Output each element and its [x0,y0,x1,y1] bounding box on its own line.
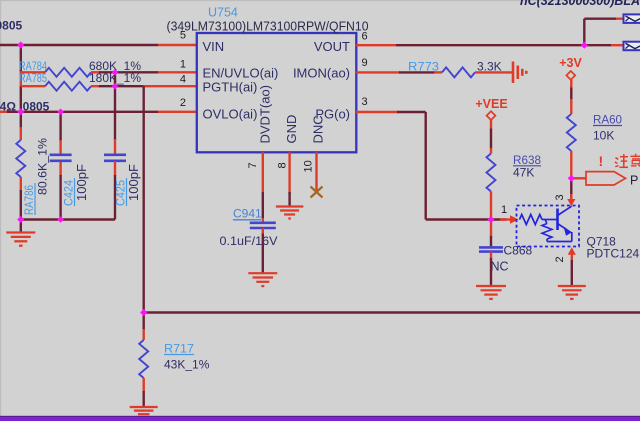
value label 0805 (clipped component label) [0,19,23,33]
pin name EN/UVLO(ai) [203,66,279,81]
svg-text:RA785: RA785 [19,73,47,85]
transistor Q718 dashed box [517,206,580,247]
svg-text:EN/UVLO(ai): EN/UVLO(ai) [203,66,279,81]
svg-text:DVDT(ao): DVDT(ao) [258,85,273,144]
junction at (584,45) [581,42,588,49]
value 43K_1% [164,358,210,372]
svg-text:(349LM73100)LM73100RPW/QFN10: (349LM73100)LM73100RPW/QFN10 [167,20,369,34]
wire bottom of left group y=219.5 [21,218,115,220]
pin arrow Q718 pin3 [567,194,575,206]
Q718 collector stroke [558,206,572,215]
label R638 [513,153,541,167]
pin number 10 (rotated) [303,160,315,172]
junction at (115,86) [112,83,119,90]
resistor RA785 zigzag [45,82,91,91]
svg-text:0805: 0805 [0,19,23,33]
svg-text:3: 3 [554,194,566,200]
wire vertical x=21 from VIN rail to OVLO rail [20,45,22,112]
wire Q718 emitter to ground [571,260,573,286]
wire RA786 branch x=21 [20,112,22,220]
svg-text:7: 7 [247,162,259,168]
resistor RA60 zigzag [567,114,576,151]
ground (rotated) after R773 [513,62,526,84]
ground under C868 [476,286,506,299]
svg-text:8: 8 [277,162,289,168]
svg-text:2: 2 [180,97,186,109]
svg-text:!: ! [599,153,604,169]
svg-text:GND: GND [284,115,299,144]
power +3V [559,56,582,70]
resistor R717 zigzag [139,340,148,378]
junction at (61,112) [57,109,64,116]
value 0.1uF/16V [220,234,278,248]
pin stub DVDT [262,152,264,192]
Q718 internal pulldown resistor [542,220,552,242]
wire OVLO rail y=112 [0,111,196,113]
power symbol +VEE diamond [487,111,496,120]
value 100pF (rotated) [127,164,141,201]
Q718 base bar [556,209,559,231]
wire vertical x=584 up [583,19,585,46]
wire C424 branch x=61 [59,112,61,220]
label RA60 [593,113,622,127]
pin name DVDT(ao) (rotated) [258,85,273,144]
svg-text:6: 6 [362,31,368,43]
junction at (115,72) [112,69,119,76]
svg-text:R717: R717 [164,342,194,356]
svg-text:IMON(ao): IMON(ao) [293,66,350,81]
label Q718 [587,235,617,249]
junction at (61,219.5) [57,216,64,223]
pin number 5 [180,30,186,42]
value 47K [513,166,534,180]
svg-text:C424: C424 [64,179,76,206]
pin stub DNC [315,152,317,192]
wire vertical x=115 (RA784/5 to C425) [114,72,116,154]
svg-text:80.6K_1%: 80.6K_1% [36,138,50,195]
wire IMON row [356,71,442,73]
label C425 (rotated) [116,178,128,206]
off-page port (bottom) [624,42,640,51]
svg-text:VIN: VIN [203,39,225,54]
svg-text:PGTH(ai): PGTH(ai) [203,80,258,95]
wire PG row [356,112,506,220]
junction at (491,219.5) [487,216,494,223]
pin name PGTH(ai) [203,80,258,95]
Q718 internal wire to base [542,219,558,221]
svg-text:+VEE: +VEE [475,97,507,111]
pin label 3 (rotated) [554,194,566,200]
svg-text:4: 4 [180,73,186,85]
svg-text:10: 10 [303,160,315,172]
pin number 8 (rotated) [277,162,289,168]
svg-text:C941: C941 [233,207,262,221]
wire node to Q718 collector [570,178,572,198]
wire vertical x=144 PGTH net down [142,86,144,312]
wire junction to R717 [142,313,144,341]
svg-text:5: 5 [180,30,186,42]
wire +3V to RA60 [570,80,572,114]
wire RA784 row y=72 [21,71,196,73]
wire DVDT to C941 [262,192,264,223]
value label 04Ω_0805 (clipped) [0,100,50,114]
svg-text:47K: 47K [513,166,534,180]
svg-text:43K_1%: 43K_1% [164,358,210,372]
wire top y=18.7 to port [584,18,625,20]
svg-text:3: 3 [362,96,368,108]
value 100pF (rotated) [75,164,89,201]
svg-text:100pF: 100pF [127,164,141,201]
power symbol +3V diamond [566,71,575,80]
pin name PG(o) [315,106,350,121]
junction at (21,45) [17,41,24,48]
label RA784 [19,61,47,73]
svg-text:RA784: RA784 [19,61,47,73]
wire R773 to ground [475,71,513,73]
pin name OVLO(ai) [203,106,258,121]
svg-text:nC(3213000300)BLA: nC(3213000300)BLA [520,0,640,8]
value 680K_1% [89,61,141,73]
label C424 (rotated) [64,178,76,206]
wire C868 to ground [490,252,492,286]
label R717 [164,342,194,356]
ground under C941 [248,273,277,286]
svg-text:9: 9 [362,57,368,69]
ground under R717 [130,407,158,418]
value 10K [593,129,614,143]
value 180K_1% [89,73,141,85]
label U754 [208,6,238,20]
wire long rail y=312.5 [144,311,640,313]
ground at GND pin [276,192,304,219]
wire C941 to ground [262,228,264,273]
pin number 4 [180,73,186,85]
value (349LM73100)LM73100RPW/QFN10 [167,20,369,34]
pin number 7 (rotated) [247,162,259,168]
resistor RA786 zigzag [16,140,25,177]
pin label 2 (rotated) [554,256,566,262]
svg-text:DNC: DNC [311,115,326,143]
svg-text:RA786: RA786 [24,185,36,215]
junction at (144,312.5) [140,309,147,316]
pin name GND (rotated) [284,115,299,144]
wire RA60 to node [570,151,572,178]
value PDTC124E [587,247,640,261]
net label nC(3213000300)BLA (clipped top) [520,0,640,8]
off-page port (top) [624,14,640,23]
pin name VIN [203,39,225,54]
netname flag (pointer) [586,172,626,185]
capacitor C941 plates [250,223,276,228]
wire R717 to ground [142,378,144,406]
label R773 [408,59,439,73]
svg-text:1: 1 [180,58,186,70]
wire node to C868 [490,220,492,248]
pin label 1 [501,204,507,216]
pin arrow Q718 pin2 [568,247,576,261]
resistor R638 zigzag [487,154,496,192]
pin name DNC (rotated) [311,115,326,143]
svg-text:2: 2 [554,256,566,262]
svg-text:NC: NC [491,260,509,274]
svg-text:10K: 10K [593,129,614,143]
label NC [491,260,509,274]
wire +VEE to R638 [490,120,492,154]
warning text ! 注意 (red) [599,153,640,169]
svg-text:OVLO(ai): OVLO(ai) [203,106,258,121]
svg-text:0.1uF/16V: 0.1uF/16V [220,234,278,248]
svg-text:+3V: +3V [559,56,582,70]
junction at (571,178) [568,175,575,182]
svg-text:RA60: RA60 [593,113,622,127]
label RA785 [19,73,47,85]
pin number 2 [180,97,186,109]
power +VEE [475,97,507,111]
svg-text:1: 1 [501,204,507,216]
label RA786 (rotated) [24,183,36,215]
pin number 6 [362,31,368,43]
wire node to flag [571,177,586,179]
label C868 [504,244,533,258]
svg-text:C425: C425 [116,180,128,206]
Q718 internal base resistor [520,215,543,225]
capacitor C868 plates [479,247,503,251]
value 3.3K [477,59,502,73]
pin number 3 [362,96,368,108]
pin name VOUT [314,39,350,54]
wire RA785 row y=86 [21,85,196,87]
pin name IMON(ao) [293,66,350,81]
wire VIN rail y=45 [0,44,196,46]
svg-text:P: P [630,174,638,188]
no-connect X at DNC [311,187,323,198]
wire VOUT rail y=45 [356,44,625,46]
capacitor C425 plates [104,155,126,161]
ground left group [6,220,35,246]
wire C425 bottom [114,161,116,220]
svg-text:PDTC124E: PDTC124E [587,247,640,261]
svg-text:U754: U754 [208,6,238,20]
svg-text:100pF: 100pF [75,164,89,201]
pin stub GND [288,152,290,194]
Q718 internal emitter rail [547,241,572,243]
label C941 [233,207,262,221]
junction at (21,112) [17,108,24,115]
wire R638 to node [490,192,492,220]
ground under Q718 [558,286,586,299]
svg-text:R773: R773 [408,59,439,73]
op-amp/load-switch U754 box [197,33,356,152]
junction at (21,219.5) [17,216,24,223]
pin number 9 [362,57,368,69]
resistor R773 zigzag [442,67,475,77]
pin number 1 [180,58,186,70]
pin arrow Q718 pin1 [500,215,519,223]
Q718 emitter stroke + arrow [558,224,573,242]
capacitor C424 plates [50,155,72,161]
net label P (clipped) [630,174,638,188]
svg-text:VOUT: VOUT [314,39,350,54]
value 80.6K_1% (rotated) [36,138,50,195]
resistor RA784 zigzag [45,68,91,77]
